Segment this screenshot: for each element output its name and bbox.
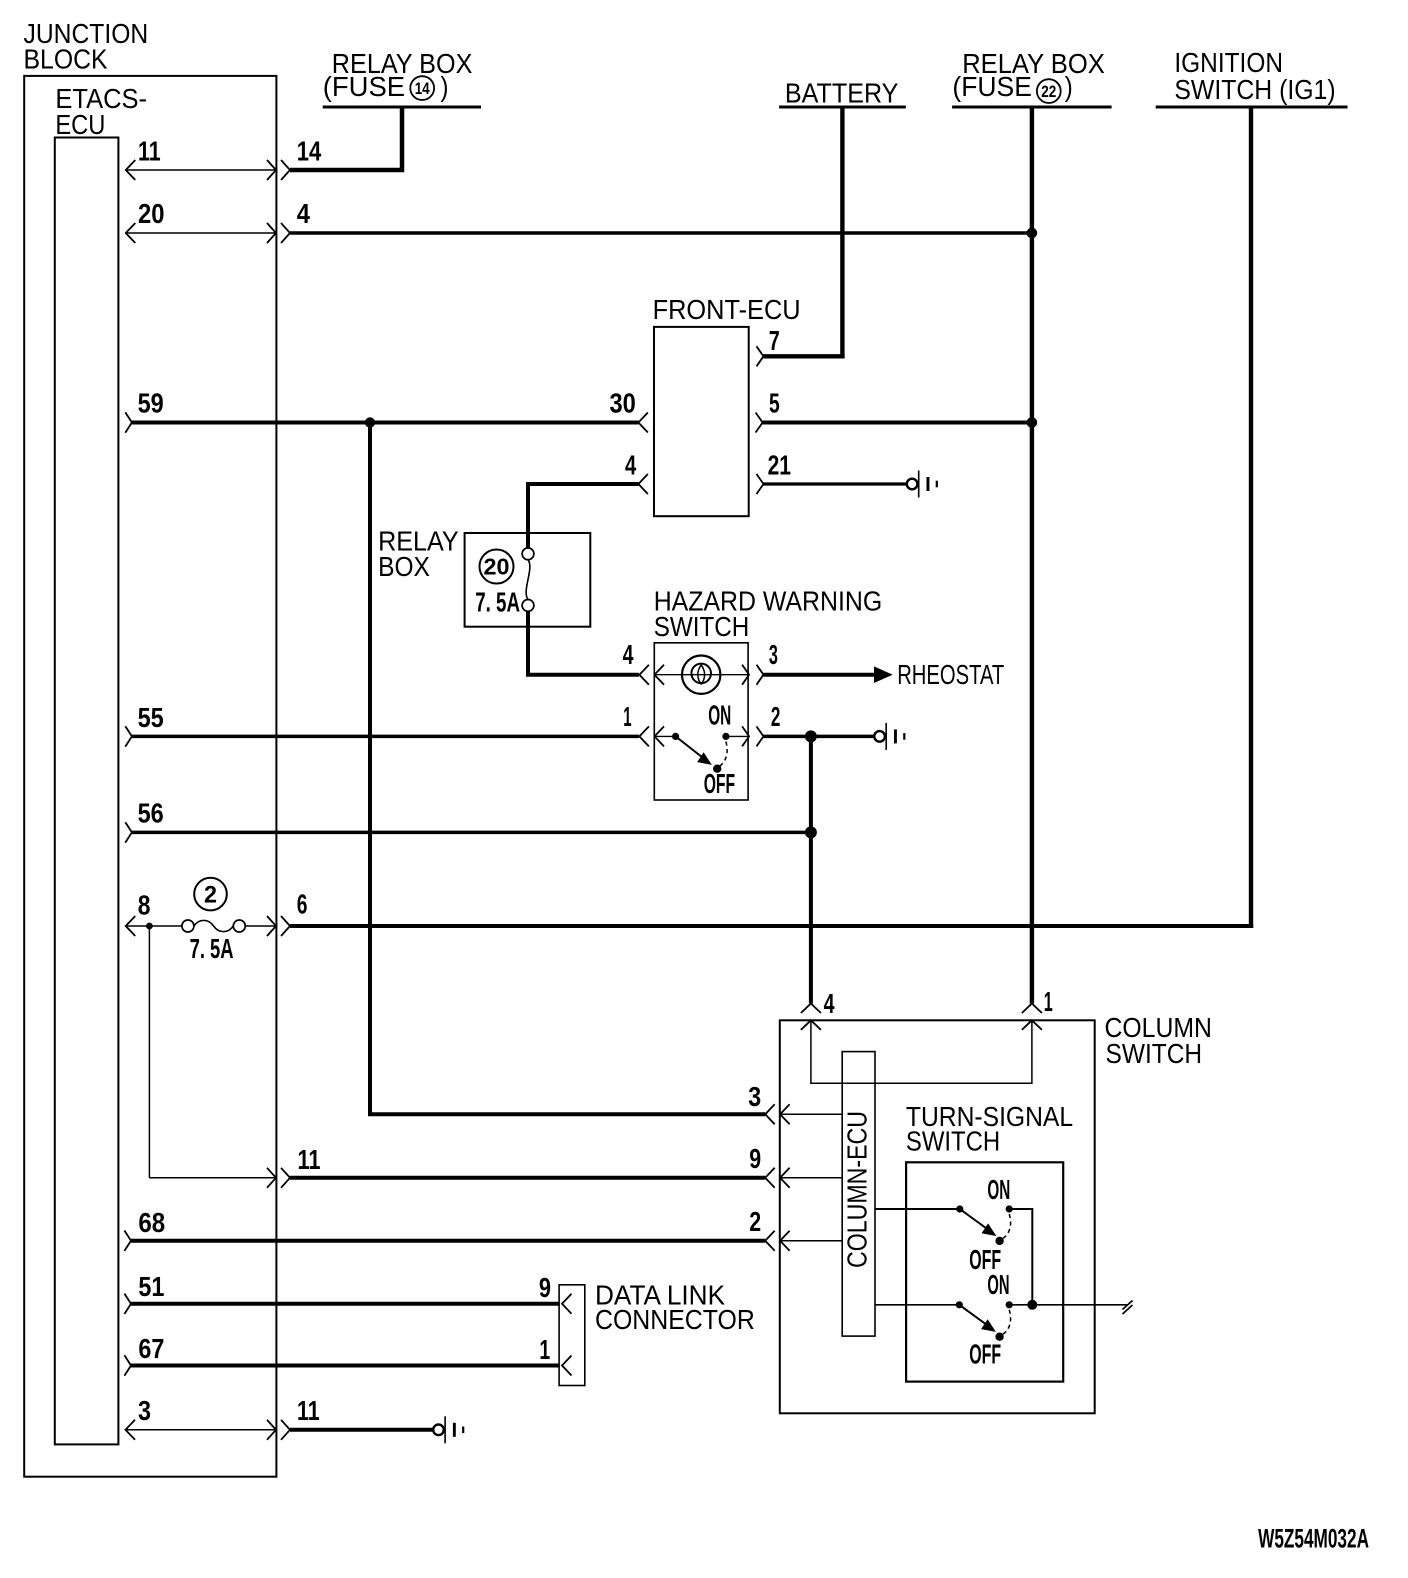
battery feed wire vertical [840,107,844,359]
ETACS-ECU box [55,138,119,1445]
rheostat arrow [874,666,893,683]
hazard switch ON dashed travel arc [720,742,727,767]
wire 8 to boundary [245,925,276,927]
ignition switch bus bar [1156,106,1348,109]
svg-text:BATTERY: BATTERY [785,78,899,109]
circled fuse number 14 [410,76,434,100]
DLC pin 1 arrow [562,1356,572,1376]
svg-text:FRONT-ECU: FRONT-ECU [653,294,801,325]
wire row 67-1 [131,1364,560,1368]
junction dot on wire 56 [805,826,817,838]
svg-text:SWITCH: SWITCH [654,611,750,642]
hazard switch ON contact [722,733,729,740]
wire break symbol [1123,1301,1133,1315]
internal link pins 4-1 [811,1020,1032,1083]
svg-text:ON: ON [987,1174,1010,1205]
wire 4 thick segment to relay box fuse22 drop [290,231,1032,235]
wire row 55-1 [132,735,639,739]
switch 2 ON contact [1006,1301,1013,1308]
circled fuse number 2 [194,878,227,911]
svg-text:1: 1 [1044,986,1053,1017]
FRONT-ECU box [654,327,749,516]
fuse 2 element [182,920,194,932]
svg-text:2: 2 [749,1206,761,1237]
svg-text:ON: ON [987,1269,1009,1300]
ignition switch IG1 feed wire vertical [1249,107,1253,928]
svg-text:22: 22 [1041,82,1056,101]
svg-text:6: 6 [297,889,308,920]
svg-text:21: 21 [768,450,791,481]
fuse 20 element [522,548,534,560]
svg-text:8: 8 [138,889,151,920]
switch 1 ON contact [1006,1205,1013,1212]
hazard illumination lamp [682,656,720,694]
svg-text:CONNECTOR: CONNECTOR [595,1304,755,1335]
switch 1 feed line [875,1208,960,1210]
ground at FRONT-ECU pin 21 [907,471,938,498]
relay box outline [465,533,591,627]
junction block outline [24,76,276,1477]
FRONT-ECU pin 21 wire to ground [764,482,907,485]
junction dot pin2 branch [805,730,817,742]
svg-text:59: 59 [138,387,164,418]
wire pin3 to rheostat [764,673,875,677]
svg-text:2: 2 [204,882,217,909]
wire row 59-30 [132,421,639,425]
junction dot switch output [1027,1300,1037,1310]
wire 14 thick segment [290,107,402,170]
svg-text:7. 5A: 7. 5A [475,586,520,617]
svg-text:3: 3 [138,1395,151,1426]
svg-text:14: 14 [415,79,430,98]
svg-text:OFF: OFF [704,768,735,799]
hazard pin 2 arrows [742,726,749,746]
switch 2 feed line [875,1304,959,1306]
switch 1 moving arm [960,1209,991,1232]
svg-text:): ) [1065,71,1073,102]
svg-text:2: 2 [771,701,781,732]
svg-text:1: 1 [623,701,631,732]
hazard switch common contact [672,733,679,740]
column switch box [780,1020,1095,1413]
thin lead into column-ECU pin 9 [780,1177,842,1179]
thin lead into column-ECU pin 2 [780,1240,842,1242]
COLUMN-ECU box [842,1052,875,1337]
svg-text:3: 3 [769,639,778,670]
svg-text:SWITCH (IG1): SWITCH (IG1) [1174,74,1335,105]
hazard warning switch box [654,643,748,800]
svg-text:COLUMN-ECU: COLUMN-ECU [842,1111,873,1268]
link from switch1 ON down to output [1009,1209,1032,1305]
wire pin2 to ground [764,735,875,739]
turn-signal switch box [906,1162,1063,1381]
svg-text:1: 1 [539,1334,550,1365]
hazard lamp line [654,674,748,676]
FRONT-ECU pin 5 wire to fuse22 drop [763,421,1032,425]
svg-text:3: 3 [748,1081,761,1112]
svg-text:4: 4 [625,450,637,481]
svg-text:OFF: OFF [969,1338,1001,1369]
relay box (fuse 14) bus bar [323,106,481,109]
switch 2 output wire [1009,1304,1127,1306]
svg-text:20: 20 [484,554,510,580]
svg-text:ECU: ECU [55,109,105,140]
svg-text:RHEOSTAT: RHEOSTAT [897,659,1004,690]
wire row 51-9 [131,1302,560,1306]
hazard switch OFF contact [713,765,721,773]
svg-text:4: 4 [824,988,835,1019]
svg-text:11: 11 [298,1144,321,1175]
svg-text:11: 11 [138,136,161,167]
circled fuse number 20 [480,550,514,584]
junction dot at fuse22 drop / pin 5 [1027,417,1038,428]
branch wire from 8 down to row 11 [148,926,150,1178]
svg-text:9: 9 [539,1272,551,1303]
svg-text:5: 5 [769,387,780,418]
data link connector box [559,1285,585,1386]
wire row 3-11 thin segment [126,1429,277,1431]
svg-text:4: 4 [297,198,311,229]
wire row 20-4 thin segment [126,232,276,234]
FRONT-ECU pin 7 wire to battery [764,354,845,358]
svg-text:20: 20 [138,198,165,229]
circled fuse number 22 [1037,79,1061,103]
wire 6 thick segment to ignition drop [290,924,1253,928]
column switch pin 1 arrows [1022,1004,1042,1014]
switch 1 OFF contact [995,1237,1003,1245]
hazard pin 2 line [726,735,748,737]
hazard pin 1 arrows [639,726,649,746]
hazard pin 3 arrows [742,665,749,685]
wire 11 to ground [290,1428,433,1432]
junction dot on wire 8 [146,923,153,930]
battery bus bar [779,106,906,109]
svg-text:SWITCH: SWITCH [906,1125,1000,1156]
wire row 56 [132,831,813,835]
wire from fuse 20 to hazard switch pin 4 [528,611,639,674]
svg-text:ON: ON [708,700,731,731]
hazard switch contact line [654,735,675,737]
wire 59 branch down to column-ECU pin 3 [370,423,765,1115]
wire row 11-14 thin segment [126,169,276,171]
switch 1 dashed travel arc [1003,1214,1011,1238]
svg-text:7. 5A: 7. 5A [190,933,234,964]
switch 2 dashed travel arc [1003,1310,1011,1334]
junction dot on wire 59 branch [365,417,375,427]
svg-text:): ) [441,71,449,102]
svg-text:51: 51 [138,1271,164,1302]
switch 2 moving arm [959,1305,990,1328]
hazard pin 4 arrows [639,665,649,685]
svg-text:(FUSE: (FUSE [323,71,405,102]
relay box fuse22 feed wire vertical [1030,107,1034,1004]
svg-text:BLOCK: BLOCK [24,44,108,75]
junction dot at fuse22 drop / wire 4 [1027,228,1038,239]
svg-text:30: 30 [610,387,636,418]
wire 9 thick segment [290,1176,765,1180]
svg-text:(FUSE: (FUSE [952,71,1032,102]
wire row 11-9 [149,1177,276,1179]
svg-text:SWITCH: SWITCH [1106,1038,1203,1069]
relay box (fuse 22) bus bar [952,106,1112,109]
wire row 68-2 [131,1239,765,1243]
hazard switch moving arm [676,736,707,760]
svg-text:4: 4 [623,639,634,670]
FRONT-ECU pin 4 wire to relay box fuse [528,484,638,548]
DLC pin 9 arrow [562,1294,572,1314]
svg-text:68: 68 [138,1207,165,1238]
ground at hazard pin 2 [874,723,905,750]
svg-text:14: 14 [297,136,322,167]
svg-text:55: 55 [138,702,164,733]
switch 2 common contact [956,1301,963,1308]
svg-text:9: 9 [749,1143,761,1174]
svg-text:7: 7 [769,325,780,356]
svg-text:W5Z54M032A: W5Z54M032A [1258,1524,1369,1554]
svg-text:67: 67 [138,1333,164,1364]
column switch pin 4 arrows [801,1004,821,1014]
svg-text:56: 56 [138,797,164,828]
svg-text:11: 11 [297,1395,320,1426]
switch 1 common contact [956,1205,963,1212]
ground at wire 11 [433,1416,464,1443]
branch wire down to column switch pin 4 [809,736,813,1003]
switch 2 OFF contact [995,1333,1003,1341]
wire row 8 thin segment with fuse [126,925,182,927]
svg-text:BOX: BOX [378,551,430,582]
thin lead into column-ECU pin 3 [780,1113,842,1115]
